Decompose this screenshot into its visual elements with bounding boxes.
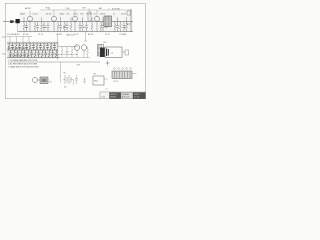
- wire drop to bottom: [60, 62, 62, 83]
- resistor R7: [82, 22, 84, 32]
- resistor R40: [61, 47, 63, 58]
- notes text upper: [8, 59, 38, 62]
- capacitor C25: [51, 50, 54, 58]
- resistor R42: [87, 47, 89, 58]
- capacitor C3: [43, 22, 46, 32]
- wire mid lower link: [55, 54, 78, 56]
- capacitor C51: [83, 78, 86, 85]
- switch box S1: [40, 77, 48, 84]
- label mid voltages: [77, 65, 81, 67]
- coupling capacitor C0: [10, 20, 14, 23]
- pilot lamp PL1: [33, 78, 41, 83]
- capacitor C15: [32, 43, 35, 50]
- resistor R23: [34, 50, 36, 58]
- wire T3 to speaker: [98, 48, 101, 53]
- capacitor C21: [23, 50, 26, 58]
- resistor R22: [27, 50, 29, 58]
- title cell 2 dark: [110, 93, 122, 99]
- transistor Q5: [74, 45, 80, 58]
- wire interband drop: [84, 32, 87, 42]
- transistor Q1: [28, 10, 33, 32]
- connector pin labels: [114, 68, 132, 70]
- notes text mid: [8, 63, 37, 66]
- transformer T1 (ferrite rod, dark): [16, 19, 20, 32]
- capacitor C8: [85, 22, 88, 32]
- resistor R3: [41, 22, 43, 32]
- resistor R5: [64, 22, 66, 32]
- resistor R6: [70, 22, 72, 32]
- resistor R16: [29, 43, 31, 50]
- wire speaker out: [122, 51, 125, 53]
- wire mid bus 2: [7, 49, 58, 51]
- capacitor C20: [16, 50, 19, 58]
- capacitor C11: [123, 22, 126, 32]
- sheet border frame: [5, 3, 145, 99]
- resistor R30 tall box: [88, 10, 91, 21]
- capacitor C16: [39, 43, 42, 50]
- wire mid bus 1: [7, 42, 58, 44]
- resistor R4: [57, 22, 59, 32]
- resistor R26: [55, 50, 57, 58]
- capacitor C9: [126, 23, 131, 26]
- IF transformer T2: [104, 16, 112, 27]
- battery BT1: [63, 73, 74, 89]
- resistor R20: [13, 50, 15, 58]
- label row top band lower: [23, 33, 126, 36]
- antenna ANT: [3, 21, 16, 23]
- junction cross: [105, 60, 110, 67]
- label row top right: [112, 9, 120, 11]
- label mid cluster values: [8, 48, 30, 58]
- wire mid top rail: [6, 37, 32, 44]
- resistor R1: [23, 22, 25, 32]
- capacitor C23: [37, 50, 40, 58]
- wire right feed: [130, 9, 132, 32]
- resistor R9: [100, 22, 102, 32]
- wire long bottom rail: [8, 61, 100, 63]
- resistor R25: [48, 50, 50, 58]
- resistor R10: [114, 22, 116, 32]
- resistor R2: [34, 22, 36, 32]
- wire ground mid right: [60, 57, 90, 59]
- resistor R15: [22, 43, 24, 50]
- capacitor C2: [36, 22, 39, 32]
- label T3: [103, 42, 107, 44]
- capacitor C14: [25, 43, 28, 50]
- resistor R41: [71, 47, 73, 58]
- label L-VS: [105, 88, 107, 91]
- resistor R13: [8, 43, 10, 50]
- capacitor C5: [59, 22, 62, 32]
- transistor Q2: [52, 10, 57, 32]
- capacitor C18: [53, 43, 56, 50]
- label row top band upper: [20, 13, 126, 16]
- capacitor C12: [11, 43, 14, 50]
- transistor Q3: [73, 10, 78, 32]
- wire top ground rail: [18, 31, 134, 33]
- resistor R21: [20, 50, 22, 58]
- capacitor C10: [116, 22, 119, 32]
- fold mark left 1: [2, 36, 6, 38]
- resistor R11: [120, 22, 122, 32]
- resistor R31 box: [127, 11, 131, 15]
- capacitor C7: [79, 22, 82, 32]
- header text pieces: [25, 7, 103, 10]
- capacitor C22: [30, 50, 33, 58]
- label 6V: [50, 82, 53, 84]
- label row top band below-bus: [25, 27, 125, 29]
- notes text lower: [8, 66, 40, 69]
- top band underlay: [19, 12, 133, 33]
- speaker magnet: [100, 48, 105, 58]
- wire mid link: [58, 46, 78, 48]
- fold mark left 2: [2, 53, 6, 55]
- node line left: [57, 34, 59, 61]
- resistor R8: [91, 22, 93, 32]
- capacitor C9: [102, 22, 105, 32]
- resistor R17: [36, 43, 38, 50]
- capacitor C4: [47, 22, 50, 32]
- wire top main bus: [20, 21, 133, 23]
- resistor R24: [41, 50, 43, 58]
- connector CN1: [112, 71, 137, 79]
- resistor R19: [50, 43, 52, 50]
- title block outline: [100, 92, 146, 99]
- output transformer T3: [98, 45, 104, 57]
- capacitor C24: [44, 50, 47, 58]
- wire mid ground bus: [7, 57, 60, 59]
- mid band underlay: [7, 42, 59, 59]
- title cell 1: [100, 92, 110, 99]
- transistor Q6: [81, 45, 87, 58]
- speaker LS1: [105, 47, 122, 58]
- resistor R12: [126, 22, 128, 32]
- capacitor C6: [66, 22, 69, 32]
- capacitor C40: [66, 47, 69, 58]
- title cell 3: [121, 93, 133, 99]
- wire top supply rail: [40, 8, 132, 10]
- capacitor C50: [75, 75, 78, 84]
- title cell 4 dark: [133, 93, 146, 99]
- connector lower marks: [113, 81, 118, 83]
- wire stubs above bus: [24, 17, 127, 22]
- resistor R18: [43, 43, 45, 50]
- capacitor C17: [46, 43, 49, 50]
- transistor Q4: [95, 10, 100, 32]
- capacitor C1: [25, 22, 28, 32]
- label mid header: [7, 33, 74, 37]
- capacitor C19: [9, 50, 12, 58]
- capacitor C13: [18, 43, 21, 50]
- terminal box TB1: [93, 74, 108, 86]
- resistor R14: [15, 43, 17, 50]
- jack J1: [125, 50, 129, 55]
